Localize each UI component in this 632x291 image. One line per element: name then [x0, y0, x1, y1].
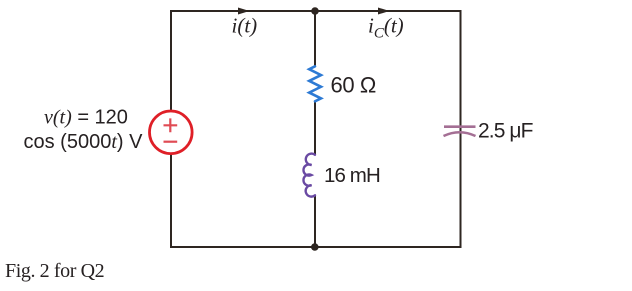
wire middle bottom segment: [314, 195, 316, 247]
svg-text:Fig. 2 for Q2: Fig. 2 for Q2: [5, 260, 104, 282]
voltage source plus sign: [164, 118, 178, 132]
capacitor C 2.5uF plate top: [444, 125, 476, 128]
capacitor C 2.5uF plate bottom curved: [444, 132, 476, 136]
inductor L 16mH coil: [303, 154, 315, 197]
arrow iC(t): [378, 8, 390, 15]
svg-text:i(t): i(t): [232, 14, 258, 38]
svg-text:cos (5000t) V: cos (5000t) V: [24, 131, 144, 153]
resistor R 60ohm zigzag: [309, 66, 321, 101]
voltage source minus sign: [164, 141, 178, 143]
wire right: [460, 10, 462, 247]
voltage source VS circle: [150, 111, 193, 154]
svg-text:16 mH: 16 mH: [324, 164, 380, 187]
svg-text:2.5 μF: 2.5 μF: [478, 120, 533, 143]
node junction dot top: [311, 7, 319, 15]
wire bottom: [170, 246, 462, 248]
svg-text:v(t) = 120: v(t) = 120: [44, 107, 128, 129]
svg-text:60 Ω: 60 Ω: [331, 72, 376, 97]
node junction dot bottom: [311, 243, 319, 251]
wire middle top segment: [314, 11, 316, 67]
wire middle mid segment: [314, 101, 316, 155]
arrow i(t): [238, 8, 250, 15]
svg-text:iC(t): iC(t): [368, 14, 404, 42]
wire top: [171, 10, 461, 12]
wire left: [170, 10, 172, 247]
